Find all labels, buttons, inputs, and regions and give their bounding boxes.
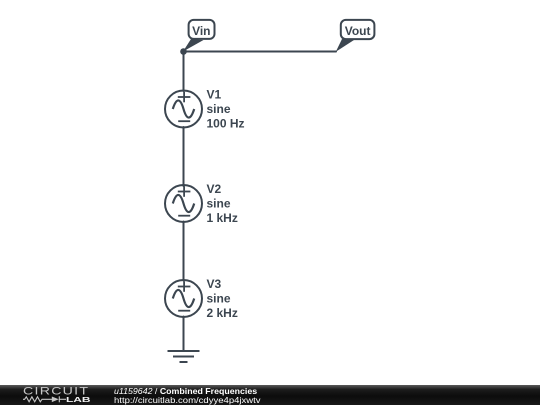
footer url text: [114, 396, 261, 405]
footer bar: [0, 385, 540, 405]
svg-text:Vin: Vin: [192, 24, 210, 38]
wire: V1 bottom pin to V2 top pin: [183, 127, 185, 186]
svg-text:V1: V1: [207, 88, 222, 102]
ground: [168, 351, 200, 362]
wire: V3 bottom pin to ground: [183, 317, 185, 352]
wire: horizontal net Vin to Vout: [184, 51, 337, 53]
svg-text:V3: V3: [207, 277, 222, 291]
junction node at Vin tap: [180, 48, 187, 55]
label V1 value: [207, 88, 245, 131]
CircuitLab logo: [0, 385, 110, 405]
svg-text:2 kHz: 2 kHz: [207, 306, 238, 320]
svg-text:100 Hz: 100 Hz: [207, 117, 245, 131]
voltage source V1 (sine 100 Hz): [165, 91, 202, 128]
svg-text:sine: sine: [207, 197, 231, 211]
label V2 value: [207, 182, 238, 225]
label V3 value: [207, 277, 238, 320]
svg-text:sine: sine: [207, 102, 231, 116]
footer title text: [114, 387, 257, 396]
svg-text:1 kHz: 1 kHz: [207, 211, 238, 225]
voltage source V2 (sine 1 kHz): [165, 185, 202, 222]
voltage source V3 (sine 2 kHz): [165, 280, 202, 317]
net flag Vout: [336, 20, 375, 52]
svg-text:Vout: Vout: [345, 24, 371, 38]
svg-text:LAB: LAB: [66, 395, 91, 404]
wire: V2 bottom pin to V3 top pin: [183, 222, 185, 281]
net flag Vin: [183, 20, 215, 52]
svg-text:sine: sine: [207, 292, 231, 306]
svg-text:V2: V2: [207, 182, 222, 196]
wire: Vin junction down to V1 top pin: [183, 52, 185, 92]
